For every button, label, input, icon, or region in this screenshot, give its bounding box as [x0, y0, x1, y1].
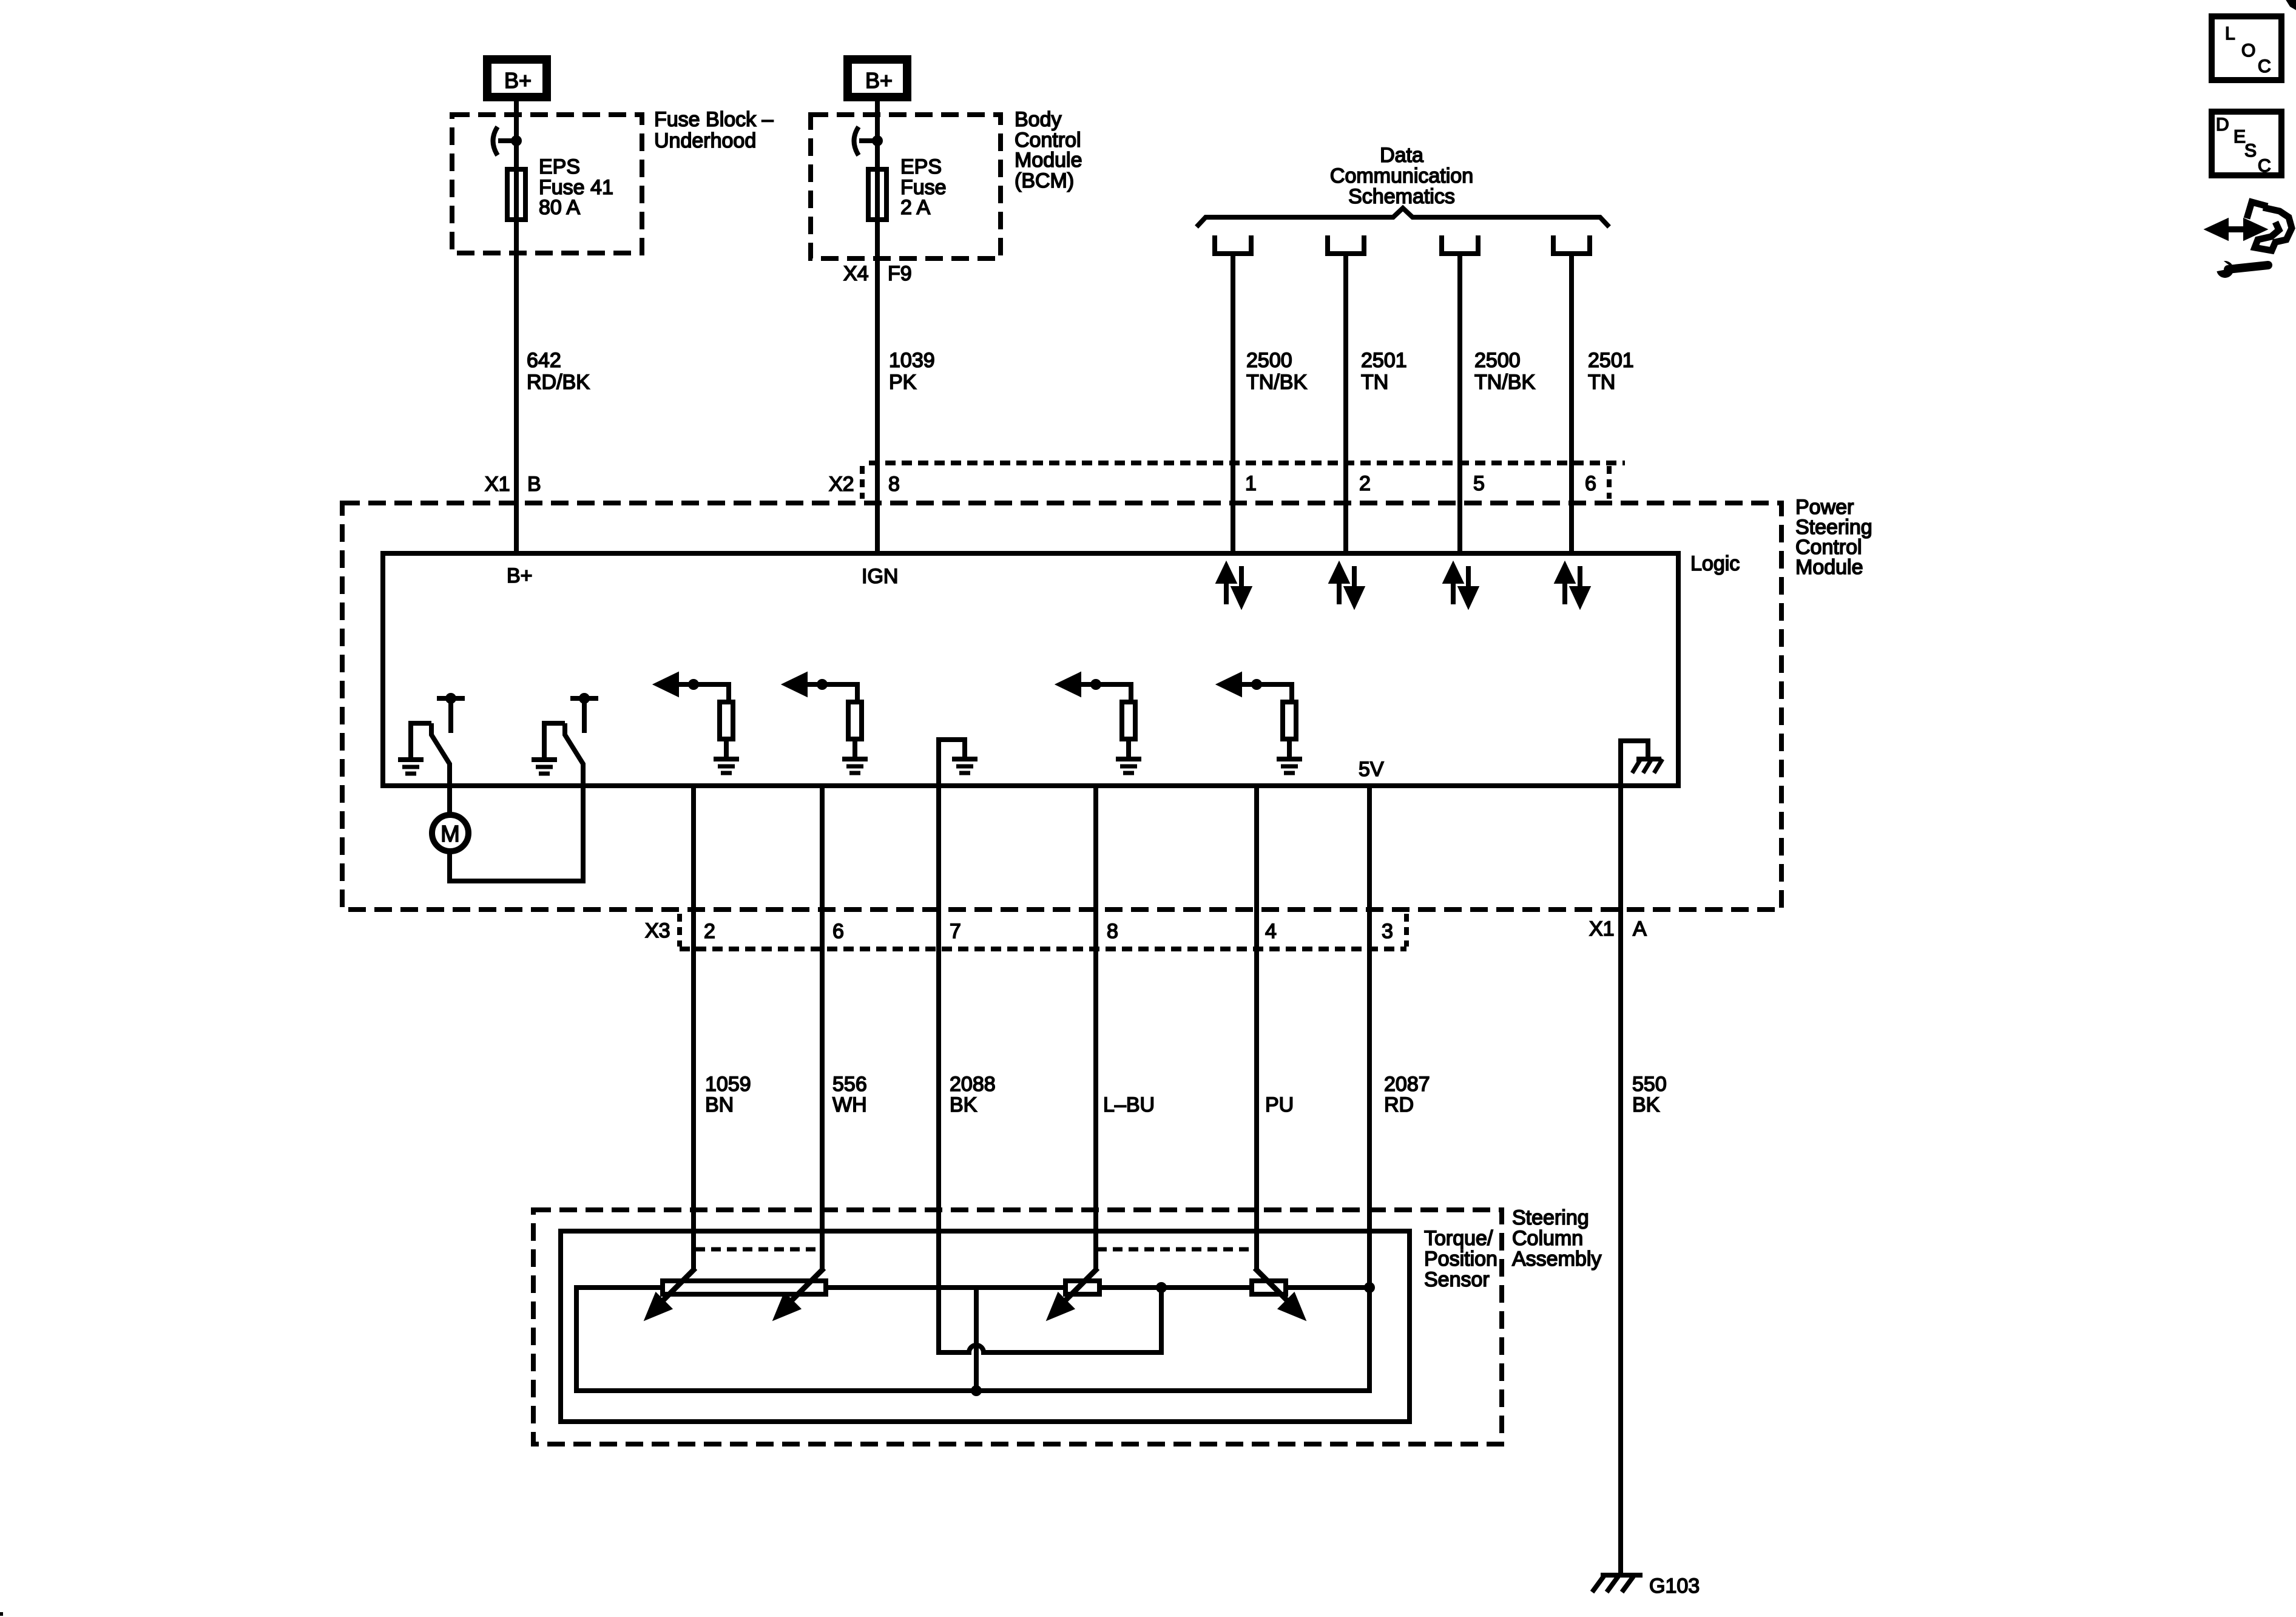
svg-text:E: E: [2234, 127, 2246, 147]
svg-text:Fuse Block –: Fuse Block –: [654, 108, 774, 131]
wire 1039 PK from B+ to PSCM IGN input: [875, 101, 880, 553]
signal sense unit 3 (arrow, resistor, ground): [1060, 675, 1141, 773]
bidirectional data arrows 3: [1446, 566, 1476, 604]
svg-text:2501: 2501: [1588, 349, 1634, 372]
bidirectional data arrows 2: [1332, 566, 1362, 604]
svg-text:80 A: 80 A: [539, 196, 580, 219]
svg-text:Communication: Communication: [1330, 164, 1473, 187]
sensor left loop wire: [576, 786, 1369, 1391]
svg-text:2087: 2087: [1384, 1073, 1430, 1096]
steering column assembly dashed box: [533, 1210, 1502, 1444]
svg-text:8: 8: [1107, 920, 1118, 943]
svg-text:TN/BK: TN/BK: [1246, 371, 1307, 394]
torque/position sensor box: [561, 1231, 1410, 1422]
signal sense unit 1 (arrow, resistor, ground): [658, 675, 739, 773]
svg-text:642: 642: [527, 349, 561, 372]
junction dot (riser / bottom wire): [971, 1385, 982, 1396]
label Data Communication Schematics: [1330, 144, 1473, 208]
svg-text:TN: TN: [1588, 371, 1615, 394]
svg-text:X3: X3: [645, 919, 670, 942]
svg-text:2500: 2500: [1246, 349, 1292, 372]
wire label 556 WH: [832, 1073, 867, 1116]
svg-text:TN: TN: [1361, 371, 1388, 394]
logic box: [383, 553, 1678, 786]
wire label 2087 RD: [1384, 1073, 1430, 1116]
label Torque/ Position Sensor: [1424, 1227, 1497, 1291]
svg-text:5: 5: [1473, 472, 1485, 495]
svg-text:1039: 1039: [889, 349, 935, 372]
svg-text:2088: 2088: [950, 1073, 996, 1096]
svg-text:WH: WH: [832, 1093, 867, 1116]
mechanical link dashes (pots 1-2): [695, 1247, 823, 1252]
wire low-ref branch with hop: [939, 786, 1161, 1352]
wire data bus 1: [1231, 254, 1235, 553]
wiper arrow pot 3 (pin 8): [1050, 1268, 1098, 1317]
output driver switch 2: [544, 693, 598, 786]
svg-text:550: 550: [1632, 1073, 1667, 1096]
wire motor loop: [450, 786, 583, 881]
wiper arrow pot 4 (pin 4): [1255, 1268, 1302, 1317]
svg-text:Body: Body: [1015, 108, 1062, 131]
ground (switch 2): [532, 760, 557, 774]
connector strip X3 bottom line: [680, 947, 1406, 951]
svg-text:BN: BN: [705, 1093, 734, 1116]
svg-text:3: 3: [1382, 920, 1393, 943]
label Body Control Module (BCM): [1015, 108, 1082, 192]
fuse block - underhood dashed box: [452, 115, 642, 253]
wire switch2 output: [581, 764, 586, 881]
svg-text:M: M: [441, 822, 460, 847]
connector strip X2 top line: [869, 461, 1625, 465]
pin label X1 A: [1589, 917, 1647, 940]
bidirectional data arrows 1: [1219, 566, 1249, 604]
svg-text:556: 556: [832, 1073, 867, 1096]
wire label 550 BK: [1632, 1073, 1667, 1116]
svg-text:(BCM): (BCM): [1015, 169, 1074, 192]
fuse pull hook and junction (BCM): [854, 127, 883, 155]
wire data bus 2: [1343, 254, 1348, 553]
in-line harness connector 2: [1328, 235, 1364, 254]
wire label 2088 BK: [950, 1073, 996, 1116]
svg-text:PK: PK: [889, 371, 917, 394]
svg-text:6: 6: [832, 920, 844, 943]
svg-text:2501: 2501: [1361, 349, 1407, 372]
ground hook on sensor low reference (pin 7): [939, 740, 977, 786]
page corner mark bottom left: [0, 1612, 3, 1616]
connector label X4 F9: [843, 262, 912, 285]
svg-text:G103: G103: [1649, 1575, 1700, 1598]
svg-text:Position: Position: [1424, 1247, 1497, 1271]
sensor bus wire: [826, 1285, 1369, 1290]
signal sense unit 2 (arrow, resistor, ground): [786, 675, 868, 773]
DESC reference box: [2212, 112, 2281, 176]
wire L-BU (pin 8): [1093, 786, 1098, 1270]
connector strip X3 separators: [677, 914, 682, 947]
svg-text:C: C: [2258, 56, 2271, 76]
pin label X2 8: [829, 473, 900, 496]
svg-text:Data: Data: [1380, 144, 1423, 167]
svg-text:L–BU: L–BU: [1103, 1093, 1155, 1116]
power steering control module dashed box: [342, 503, 1781, 910]
svg-text:EPS: EPS: [539, 155, 580, 178]
svg-text:2: 2: [704, 920, 715, 943]
svg-text:IGN: IGN: [862, 565, 898, 588]
in-line harness connector 1: [1215, 235, 1251, 254]
svg-text:2: 2: [1359, 472, 1371, 495]
svg-text:2500: 2500: [1474, 349, 1521, 372]
sensor riser wire: [974, 1288, 979, 1391]
svg-text:X4: X4: [843, 262, 869, 285]
svg-text:BK: BK: [1632, 1093, 1660, 1116]
wiper arrow pot 1 (pin 2): [648, 1268, 695, 1317]
svg-text:Schematics: Schematics: [1348, 185, 1455, 208]
svg-text:RD: RD: [1384, 1093, 1414, 1116]
svg-text:X1: X1: [485, 473, 510, 496]
svg-text:BK: BK: [950, 1093, 977, 1116]
wire label 2501 TN (2): [1361, 349, 1407, 394]
svg-text:5V: 5V: [1359, 758, 1384, 781]
svg-text:Underhood: Underhood: [654, 129, 756, 152]
svg-text:6: 6: [1585, 472, 1596, 495]
wire label 2500 TN/BK (1): [1246, 349, 1307, 394]
svg-text:D: D: [2216, 115, 2229, 135]
svg-text:8: 8: [888, 473, 900, 496]
ground G103: [1592, 1575, 1700, 1598]
svg-text:TN/BK: TN/BK: [1474, 371, 1535, 394]
resistive element (pot 3): [1065, 1281, 1099, 1294]
wire data bus 3: [1457, 254, 1462, 553]
svg-text:S: S: [2244, 141, 2257, 161]
junction dot (low ref / bus): [1156, 1282, 1167, 1293]
wire label 2501 TN (6): [1588, 349, 1634, 394]
svg-text:Sensor: Sensor: [1424, 1268, 1490, 1291]
svg-text:B+: B+: [504, 68, 532, 93]
output driver switch 1: [411, 693, 465, 786]
svg-text:1059: 1059: [705, 1073, 751, 1096]
fuse EPS Fuse 2 A body: [868, 169, 886, 220]
svg-text:4: 4: [1265, 920, 1277, 943]
fuse EPS Fuse 41 80 A body: [507, 169, 525, 220]
label Power Steering Control Module: [1795, 496, 1872, 579]
svg-text:Steering: Steering: [1512, 1206, 1589, 1229]
connector strip X2 separators: [860, 466, 865, 499]
wire data bus 4: [1569, 254, 1574, 553]
svg-text:1: 1: [1245, 472, 1257, 495]
wire label 1059 BN: [705, 1073, 751, 1116]
body control module dashed box: [811, 115, 1001, 258]
label Fuse Block - Underhood: [654, 108, 774, 152]
svg-text:Logic: Logic: [1690, 552, 1740, 575]
pin label X1 B: [485, 473, 541, 496]
wire 642 RD/BK from B+ to PSCM B+ input: [514, 101, 519, 553]
wire 550 BK ground: [1618, 786, 1623, 1575]
brace over data connectors: [1197, 208, 1609, 227]
in-line harness connector 4: [1553, 235, 1590, 254]
svg-text:Torque/: Torque/: [1424, 1227, 1493, 1250]
power symbol B+ (fuse block): [487, 59, 547, 97]
chassis ground inside logic box: [1621, 741, 1663, 786]
svg-text:Assembly: Assembly: [1512, 1247, 1601, 1271]
resistive element (torque pot): [663, 1281, 826, 1294]
wire label 1039 PK: [889, 349, 935, 394]
svg-text:Column: Column: [1512, 1227, 1583, 1250]
mechanical link dashes (pots 3-4): [1097, 1247, 1255, 1252]
svg-text:B+: B+: [865, 68, 893, 93]
svg-text:Module: Module: [1795, 556, 1863, 579]
wire PU (pin 4): [1254, 786, 1259, 1270]
svg-text:F9: F9: [888, 262, 912, 285]
diagnostic icon (arrow into connector): [2209, 202, 2292, 251]
svg-text:Module: Module: [1015, 149, 1082, 172]
in-line harness connector 3: [1442, 235, 1478, 254]
motor M: [432, 786, 468, 851]
diagnostic icon wrench: [2214, 255, 2268, 278]
wire 1059 BN (pin 2): [691, 786, 696, 1270]
svg-text:7: 7: [950, 920, 961, 943]
svg-text:O: O: [2241, 41, 2255, 61]
svg-text:EPS: EPS: [900, 155, 942, 178]
label EPS Fuse 2 A: [900, 155, 947, 219]
ground (switch 1): [398, 760, 424, 774]
wiper arrow pot 2 (pin 6): [777, 1268, 824, 1317]
resistive element (pot 4): [1252, 1281, 1286, 1294]
svg-text:L: L: [2225, 24, 2235, 44]
svg-text:C: C: [2258, 156, 2271, 176]
wire 556 WH (pin 6): [820, 786, 825, 1270]
junction dot (5V / bus): [1364, 1282, 1375, 1293]
page corner mark top right: [2289, 0, 2296, 7]
svg-text:B: B: [527, 473, 541, 496]
svg-text:X2: X2: [829, 473, 854, 496]
svg-text:RD/BK: RD/BK: [527, 371, 590, 394]
bidirectional data arrows 4: [1558, 566, 1587, 604]
wire label 642 RD/BK: [527, 349, 590, 394]
svg-text:2 A: 2 A: [900, 196, 930, 219]
svg-text:B+: B+: [507, 564, 533, 587]
power symbol B+ (BCM): [848, 59, 907, 97]
fuse pull hook and junction: [493, 127, 522, 155]
svg-text:PU: PU: [1265, 1093, 1294, 1116]
wire label 2500 TN/BK (5): [1474, 349, 1535, 394]
svg-text:X1: X1: [1589, 917, 1615, 940]
LOC reference box: [2212, 16, 2281, 80]
label EPS Fuse 41 80 A: [539, 155, 613, 219]
svg-text:A: A: [1633, 917, 1647, 940]
signal sense unit 4 (arrow, resistor, ground): [1221, 675, 1302, 773]
label Steering Column Assembly: [1512, 1206, 1601, 1271]
